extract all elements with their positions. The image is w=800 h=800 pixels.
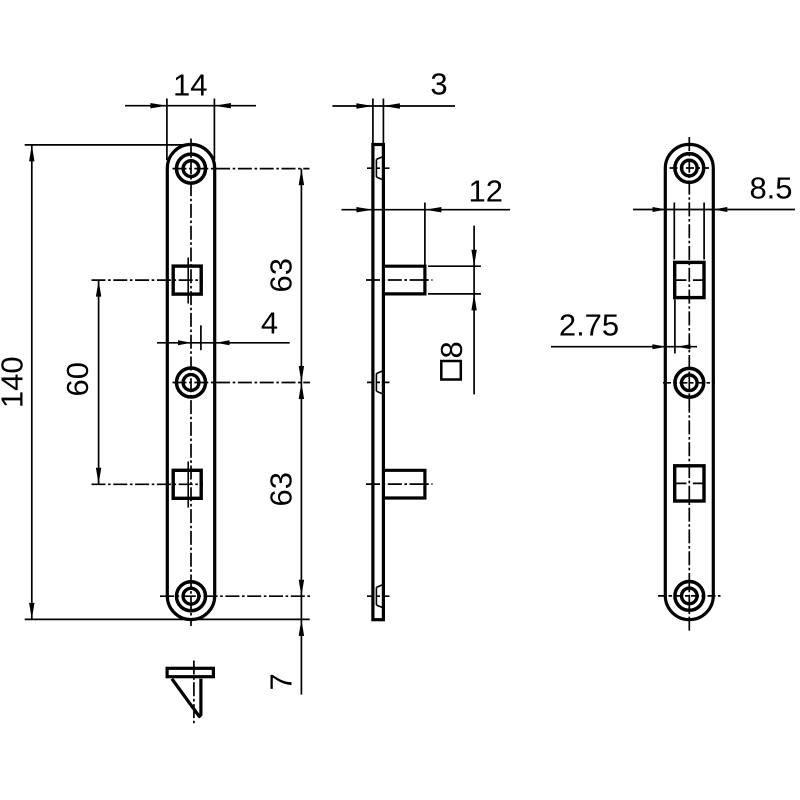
front hole 2 horizontal centerline <box>173 382 311 384</box>
dimension 140 plate height <box>0 145 310 620</box>
wedge detail triangle <box>172 679 201 717</box>
side view countersink hole 2 <box>367 371 391 395</box>
right hole 1 horizontal centerline <box>670 167 710 169</box>
front hole 1 outer circle <box>177 154 206 183</box>
dimension 60 square hole spacing <box>60 280 101 484</box>
right hole 2 outer circle <box>675 368 704 397</box>
dimension 3 plate thickness <box>332 67 455 144</box>
front square hole 2 <box>173 470 201 498</box>
svg-text:4: 4 <box>261 306 278 341</box>
svg-text:60: 60 <box>60 362 95 396</box>
right view vertical centerline <box>688 137 690 633</box>
side view countersink hole 3 <box>367 584 391 608</box>
front hole 1 inner circle <box>183 161 199 177</box>
dimension 8 peg square size <box>428 226 481 395</box>
side view profile outline <box>373 145 384 620</box>
right view plate outline <box>665 144 713 619</box>
front hole 2 inner circle <box>183 375 199 391</box>
dimension 8.5 square hole width <box>633 171 795 260</box>
dimension 14 plate width <box>125 68 256 161</box>
dimension 2.75 edge margin <box>551 300 697 354</box>
right hole 1 inner circle <box>682 160 698 176</box>
wedge detail centerline <box>193 661 195 726</box>
svg-text:8.5: 8.5 <box>749 171 792 206</box>
front view plate outline <box>167 144 214 619</box>
right square hole 1 centerline <box>676 279 704 281</box>
front square hole 1 vertical centerline <box>187 258 189 304</box>
front square hole 2 vertical centerline <box>187 462 189 508</box>
right hole 1 outer circle <box>675 154 704 183</box>
wedge detail top bar <box>167 668 213 676</box>
svg-text:8: 8 <box>434 341 469 358</box>
front hole 3 outer circle <box>177 582 206 611</box>
right square hole 2 centerline <box>676 482 704 484</box>
svg-text:12: 12 <box>468 174 502 209</box>
svg-text:7: 7 <box>264 673 299 690</box>
svg-text:14: 14 <box>173 68 207 103</box>
right hole 3 outer circle <box>675 582 704 611</box>
side view square peg 2 <box>366 470 433 498</box>
right hole 3 inner circle <box>682 588 698 604</box>
right hole 2 inner circle <box>682 375 698 391</box>
svg-text:2.75: 2.75 <box>559 308 619 343</box>
front square hole 2 centerline <box>92 483 204 485</box>
dimension chain 63 63 7 <box>264 169 305 695</box>
front hole 3 inner circle <box>183 588 199 604</box>
svg-text:63: 63 <box>264 472 299 506</box>
dimension 4 square hole offset <box>157 306 290 351</box>
svg-text:3: 3 <box>430 67 447 102</box>
right hole 2 horizontal centerline <box>663 382 715 384</box>
front view vertical centerline <box>190 139 192 627</box>
right square hole 1 <box>675 262 704 297</box>
side view countersink hole 1 <box>367 156 391 180</box>
front hole 3 horizontal centerline <box>160 595 311 597</box>
dimension 12 peg length <box>342 174 511 266</box>
svg-text:140: 140 <box>0 356 30 408</box>
side view square peg 1 <box>366 266 433 294</box>
front square hole 1 <box>173 266 201 294</box>
front square hole 1 centerline <box>92 279 204 281</box>
front hole 1 horizontal centerline <box>173 168 310 170</box>
right square hole 2 <box>675 466 704 501</box>
right hole 3 horizontal centerline <box>658 595 721 597</box>
svg-text:63: 63 <box>264 258 299 292</box>
front hole 2 outer circle <box>177 368 206 397</box>
label square 8 <box>434 341 469 379</box>
